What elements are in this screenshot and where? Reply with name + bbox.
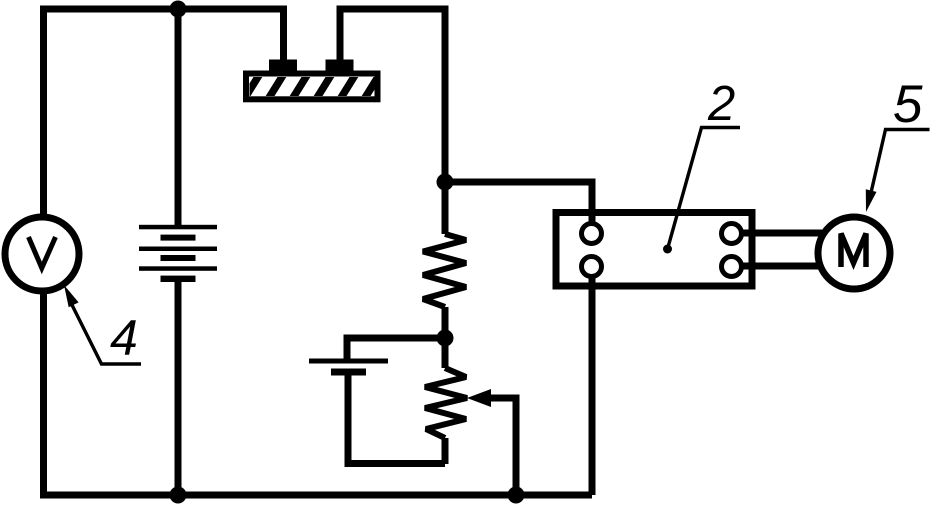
- wire: vertical through resistor column: [442, 182, 449, 464]
- battery GB2 short plate: [331, 369, 366, 376]
- short plate 2: [161, 255, 196, 261]
- battery GB2 long plate: [309, 359, 388, 364]
- wire: connector lower pin down to bottom bus: [589, 274, 596, 495]
- short plate 3: [161, 276, 196, 282]
- junction: resistor / potentiometer / battery GB2 tap: [437, 330, 454, 347]
- battery GB1 (3 cells): [139, 225, 217, 282]
- junction: wiper lead on bottom bus: [508, 487, 525, 504]
- wire: left branch (left vertical + top horizontal + drop to left tab of panel): [44, 9, 284, 495]
- pin circle top-right: [722, 224, 742, 244]
- pin stub top-left: [589, 212, 596, 226]
- letter M: [841, 234, 866, 268]
- wire: connector to motor (upper): [741, 230, 822, 237]
- label 5 leader arrow: [866, 130, 930, 213]
- svg-text:5: 5: [893, 75, 923, 134]
- pin circle bottom-left: [582, 257, 602, 277]
- short plate 1: [161, 235, 196, 241]
- wire: wiper shaft down to bottom bus: [488, 398, 516, 495]
- long plate 1: [139, 225, 217, 230]
- pin circle top-left: [582, 224, 602, 244]
- wire: battery GB2 bottom loop to potentiometer bottom: [348, 375, 445, 464]
- voltmeter (circle V): [5, 217, 79, 291]
- junction: battery stem on bottom bus: [170, 487, 187, 504]
- resistor R1 zigzag: [423, 234, 466, 307]
- wire: right tab of panel up, across top, down right side: [340, 9, 445, 182]
- wire: bottom bus: [40, 492, 592, 499]
- pin stub bottom-left: [589, 274, 596, 289]
- motor 5 (circle M): [818, 217, 890, 289]
- wire: battery branch vertical: [175, 9, 182, 495]
- label 2 leader line with dot: [663, 128, 740, 254]
- long plate 2: [139, 247, 217, 252]
- panel terminal tab left: [269, 60, 297, 72]
- svg-text:2: 2: [707, 77, 735, 131]
- solar panel 1 (hatched block): [243, 60, 405, 102]
- letter V: [29, 237, 56, 268]
- label 4 leader arrow: [64, 285, 141, 364]
- wire: connector to motor (lower): [741, 263, 822, 270]
- wire: junction to battery GB2 (left then down): [347, 338, 445, 359]
- potentiometer wiper arrow head: [467, 389, 491, 407]
- wire: junction to connector (horizontal then down): [445, 182, 592, 226]
- long plate 3: [139, 266, 217, 271]
- potentiometer RP1 zigzag: [425, 368, 467, 438]
- panel terminal tab right: [326, 60, 354, 72]
- pin circle bottom-right: [722, 257, 742, 277]
- connector block 2 (terminal strip): [556, 212, 752, 289]
- junction: node right column / connector tap: [437, 174, 454, 191]
- svg-text:4: 4: [110, 310, 138, 366]
- junction: top bus / battery stem: [170, 1, 187, 18]
